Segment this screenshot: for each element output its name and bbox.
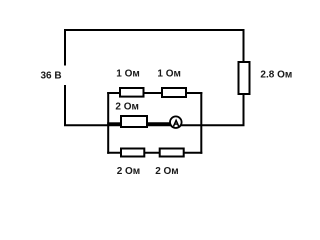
- svg-text:36 В: 36 В: [41, 71, 62, 82]
- resistor R5 2 Ом (bottom branch right): [160, 149, 184, 157]
- wire: thick stub between R3 and ammeter: [146, 122, 171, 125]
- resistor R2 1 Ом (top branch right): [162, 88, 186, 97]
- resistor R4 2 Ом (bottom branch left): [121, 149, 144, 157]
- ammeter A: [170, 116, 182, 128]
- svg-text:1 Ом: 1 Ом: [157, 69, 181, 80]
- wire: left upper segment + top wire + right upper segment: [65, 30, 244, 66]
- svg-text:1 Ом: 1 Ом: [116, 69, 140, 80]
- wire: bottom branch: [107, 152, 202, 154]
- svg-text:2 Ом: 2 Ом: [117, 166, 141, 177]
- wire: left rail of parallel network: [107, 92, 109, 154]
- wire: right rail of parallel network: [200, 92, 202, 154]
- svg-text:2.8 Ом: 2.8 Ом: [260, 70, 292, 81]
- wire: top branch: [107, 92, 202, 94]
- resistor 2.8 Ом (right vertical): [239, 62, 250, 94]
- resistor R3 2 Ом (middle branch): [121, 116, 147, 127]
- wire: thick stub between left rail and R3: [107, 122, 121, 125]
- svg-text:2 Ом: 2 Ом: [115, 102, 139, 113]
- wire: left lower segment + middle wire + right lower segment: [65, 85, 244, 125]
- resistor R1 1 Ом (top branch left): [120, 88, 144, 97]
- svg-text:2 Ом: 2 Ом: [155, 166, 179, 177]
